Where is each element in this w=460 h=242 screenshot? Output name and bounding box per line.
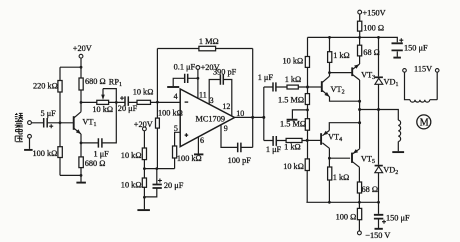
- svg-text:20 μF: 20 μF: [164, 181, 184, 190]
- svg-text:68 Ω: 68 Ω: [362, 185, 379, 194]
- svg-text:1 μF: 1 μF: [266, 145, 282, 154]
- svg-text:5 μF: 5 μF: [41, 109, 57, 118]
- svg-text:6: 6: [200, 136, 204, 145]
- svg-text:150 μF: 150 μF: [386, 214, 410, 223]
- svg-text:390 pF: 390 pF: [213, 67, 237, 76]
- svg-text:1 MΩ: 1 MΩ: [199, 37, 219, 46]
- svg-text:100 kΩ: 100 kΩ: [158, 109, 183, 118]
- svg-text:1 kΩ: 1 kΩ: [284, 143, 301, 152]
- svg-text:−150 V: −150 V: [365, 231, 390, 240]
- svg-text:680 Ω: 680 Ω: [85, 77, 106, 86]
- svg-text:VT1: VT1: [82, 118, 96, 129]
- svg-text:10 kΩ: 10 kΩ: [121, 151, 142, 160]
- svg-text:VT2: VT2: [331, 85, 345, 96]
- svg-text:115V: 115V: [414, 65, 432, 74]
- svg-text:VT4: VT4: [328, 132, 342, 143]
- svg-text:10 kΩ: 10 kΩ: [133, 88, 154, 97]
- svg-text:+20V: +20V: [134, 120, 153, 129]
- svg-text:1.5 MΩ: 1.5 MΩ: [278, 95, 304, 104]
- svg-text:10: 10: [236, 109, 244, 118]
- svg-text:10 kΩ: 10 kΩ: [121, 180, 142, 189]
- svg-text:1 kΩ: 1 kΩ: [285, 75, 302, 84]
- svg-text:1 kΩ: 1 kΩ: [333, 173, 350, 182]
- svg-text:1 kΩ: 1 kΩ: [333, 51, 350, 60]
- svg-text:1 μF: 1 μF: [94, 150, 110, 159]
- svg-text:10 kΩ: 10 kΩ: [283, 162, 304, 171]
- svg-text:220 kΩ: 220 kΩ: [33, 81, 58, 90]
- svg-text:150 μF: 150 μF: [404, 43, 428, 52]
- svg-text:3: 3: [210, 96, 214, 105]
- svg-text:12: 12: [222, 102, 230, 111]
- svg-text:100 Ω: 100 Ω: [363, 23, 384, 32]
- svg-text:0.1 μF: 0.1 μF: [174, 62, 196, 71]
- svg-text:10 kΩ: 10 kΩ: [283, 57, 304, 66]
- svg-text:+20V: +20V: [73, 44, 92, 53]
- svg-text:68 Ω: 68 Ω: [363, 48, 380, 57]
- svg-text:RP1: RP1: [109, 78, 122, 89]
- svg-text:10 kΩ: 10 kΩ: [92, 105, 113, 114]
- svg-text:M: M: [420, 118, 429, 129]
- svg-text:5: 5: [174, 124, 178, 133]
- svg-text:9: 9: [224, 124, 228, 133]
- svg-text:1.5 MΩ: 1.5 MΩ: [280, 120, 306, 129]
- svg-text:1 μF: 1 μF: [258, 73, 274, 82]
- svg-text:100 kΩ: 100 kΩ: [177, 154, 202, 163]
- svg-text:100 Ω: 100 Ω: [336, 213, 357, 222]
- svg-text:680 Ω: 680 Ω: [85, 159, 106, 168]
- svg-text:4: 4: [174, 92, 178, 101]
- svg-text:VD1: VD1: [384, 78, 399, 89]
- svg-text:20 μF: 20 μF: [118, 104, 138, 113]
- svg-text:MC1709: MC1709: [196, 115, 226, 124]
- svg-text:100 pF: 100 pF: [228, 156, 252, 165]
- svg-text:VD2: VD2: [383, 165, 398, 176]
- svg-text:+150V: +150V: [363, 8, 386, 17]
- svg-text:11: 11: [199, 91, 207, 100]
- svg-text:VT5: VT5: [361, 155, 375, 166]
- svg-text:100 kΩ: 100 kΩ: [33, 149, 58, 158]
- svg-text:VT3: VT3: [361, 71, 375, 82]
